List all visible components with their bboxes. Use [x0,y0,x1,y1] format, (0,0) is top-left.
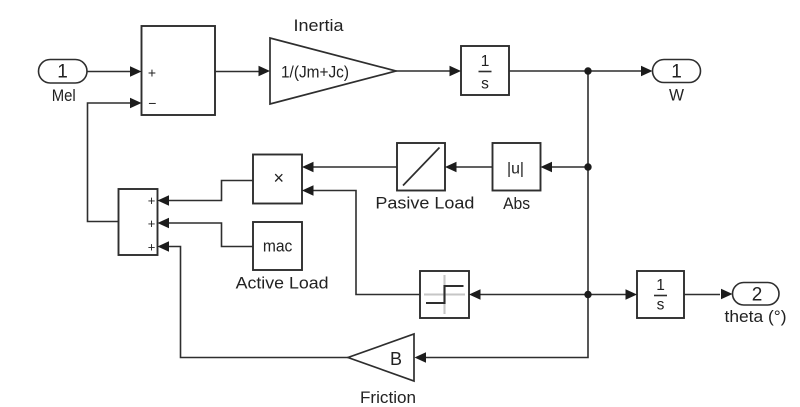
junction node at Relay line [584,291,591,298]
svg-text:2: 2 [752,285,763,306]
abs block Abs [493,143,541,191]
integrator2 fraction bar [654,295,667,297]
sum block Sum1 [142,26,216,115]
svg-text:Pasive Load: Pasive Load [375,194,474,213]
junction node at W line [584,67,591,74]
svg-text:−: − [148,95,156,111]
svg-text:+: + [148,65,156,81]
svg-text:Friction: Friction [360,388,416,407]
svg-text:1: 1 [671,62,682,83]
product block [253,155,302,204]
svg-text:theta (°): theta (°) [725,307,787,326]
arrowhead into port W [641,66,653,77]
wire mac to Sum2 [169,223,254,247]
arrowhead into Sum1 minus [130,98,142,109]
arrowhead into Integrator1 [450,66,462,77]
wire node to Relay and Integrator2 [480,294,626,296]
constant block mac [253,222,302,270]
arrowhead into Product bottom [302,185,314,196]
arrowhead into Friction gain [415,352,427,363]
svg-text:1: 1 [481,53,490,70]
wire Sum2 to Sum1 minus [88,103,131,222]
pasive load block [397,143,445,191]
wire node to Abs [552,166,588,168]
svg-text:|u|: |u| [507,161,524,178]
wire Sum1 to Inertia [215,71,259,73]
wire Relay to Product [313,191,420,295]
wire Mel to Sum1 [87,71,131,73]
arrowhead into Abs [541,162,553,173]
arrowhead into Integrator2 [626,289,638,300]
integrator block Integrator2 [637,271,684,318]
gain Inertia triangle [270,38,396,104]
svg-text:s: s [481,76,489,93]
arrowhead into Sum1 plus [130,66,142,77]
svg-text:Abs: Abs [503,194,530,213]
integrator1 fraction bar [479,71,492,73]
wire Inertia to Integrator1 [396,70,450,72]
svg-text:1/(Jm+Jc): 1/(Jm+Jc) [281,63,349,82]
output port 1 (W) [653,60,701,83]
relay block Sign [420,271,469,318]
svg-text:+: + [148,216,156,231]
gain Friction triangle B [348,334,414,381]
input port 1 (Mel) [39,60,88,84]
svg-text:Mel: Mel [52,86,76,105]
wire Abs to Pasive Load [456,166,493,168]
wire Friction to Sum2 [169,247,349,358]
integrator block Integrator1 [461,46,509,95]
arrowhead into Inertia [259,66,271,77]
junction node at Abs line [584,163,591,170]
svg-text:1: 1 [656,277,665,294]
wire main vertical feedback [587,71,589,295]
output port 2 (theta) [733,283,780,306]
svg-text:1: 1 [57,62,68,83]
arrowhead into Sum2 input1 [158,195,170,206]
wire Integrator2 to port theta [684,294,720,296]
arrowhead into Sum2 input2 [158,218,170,229]
wire node to Friction gain [426,295,588,358]
svg-text:B: B [390,349,402,369]
arrowhead into port theta [721,289,733,300]
svg-text:×: × [274,168,285,188]
arrowhead into Relay [469,289,481,300]
wire Pasive Load to Product [313,166,397,168]
svg-text:s: s [657,297,665,314]
arrowhead into Product top [302,162,314,173]
svg-text:+: + [148,240,156,255]
arrowhead into Pasive Load [445,162,457,173]
svg-text:Inertia: Inertia [294,16,345,35]
svg-text:Active Load: Active Load [236,274,329,293]
svg-text:W: W [669,86,684,105]
wire Product to Sum2 [169,181,254,201]
arrowhead into Sum2 input3 [158,241,170,252]
svg-text:+: + [148,193,156,208]
sum block Sum2 [119,189,158,255]
wire Integrator1 to port W [509,70,641,72]
svg-text:mac: mac [263,237,293,256]
